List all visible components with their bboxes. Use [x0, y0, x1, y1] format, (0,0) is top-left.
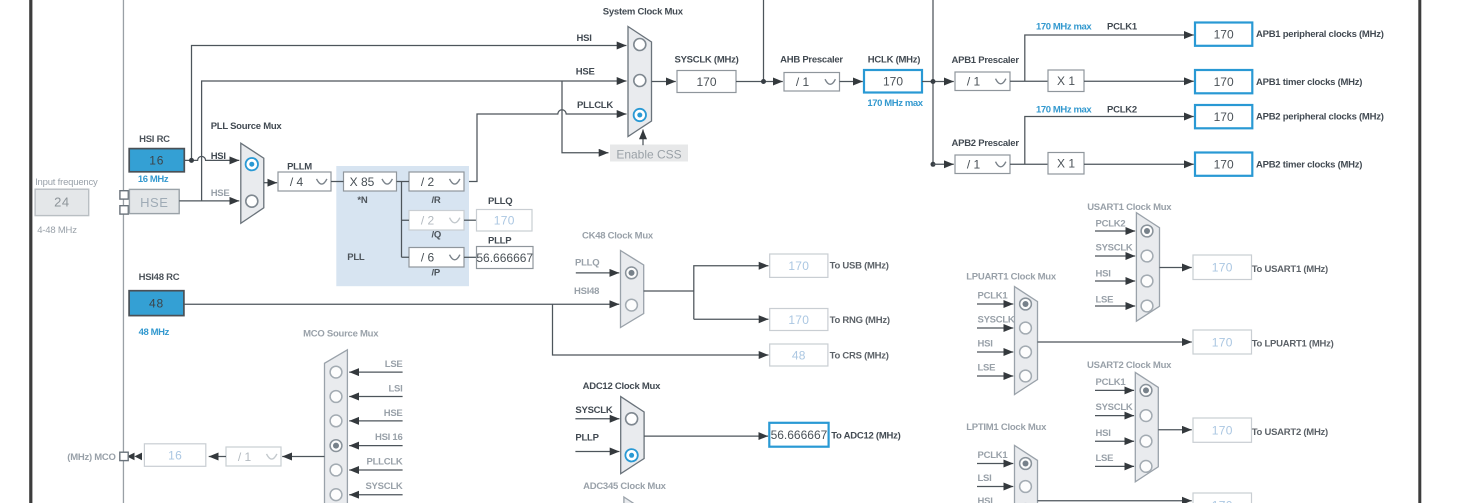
- svg-text:HSE: HSE: [140, 195, 168, 210]
- wire HSI RC to PLL Source Mux (hop over HSE riser): [184, 156, 239, 160]
- svg-text:SYSCLK: SYSCLK: [1096, 402, 1133, 413]
- wire HSI to System Clock Mux: [192, 46, 627, 161]
- svg-text:HSI48: HSI48: [574, 286, 599, 297]
- wire LPUART1 mux to To LPUART1 box: [1038, 341, 1192, 343]
- svg-text:*N: *N: [357, 195, 367, 206]
- HSE OSC_IN pin node: [120, 191, 128, 199]
- svg-text:APB2 Prescaler: APB2 Prescaler: [952, 138, 1020, 149]
- svg-text:MCO Source Mux: MCO Source Mux: [303, 328, 379, 339]
- PLL /Q divider dropdown /2 (disabled): [409, 211, 464, 231]
- svg-text:USART1 Clock Mux: USART1 Clock Mux: [1087, 202, 1172, 213]
- mux U-USART2 USART2 Clock Mux: [1135, 372, 1158, 481]
- svg-text:System Clock Mux: System Clock Mux: [603, 6, 684, 17]
- stub wire SYSCLK to USART2 mux: [1095, 415, 1134, 417]
- wire PLLM to *N: [331, 181, 344, 183]
- MCO divider dropdown /1 (disabled): [226, 447, 281, 466]
- svg-text:X 85: X 85: [350, 175, 375, 189]
- svg-text:PLLP: PLLP: [575, 433, 599, 444]
- APB1 timer clocks box 170: [1195, 70, 1252, 93]
- svg-text:56.666667: 56.666667: [476, 251, 533, 265]
- To RNG value box (disabled): [770, 309, 828, 331]
- wire SYSCLK to AHB Prescaler: [736, 81, 783, 83]
- svg-text:HSI: HSI: [1096, 428, 1111, 439]
- stub wire PCLK1 to LPUART1 mux: [977, 303, 1013, 305]
- svg-text:PLLCLK: PLLCLK: [367, 457, 403, 468]
- svg-text:170 MHz max: 170 MHz max: [1036, 22, 1092, 33]
- PLL /R divider dropdown /2: [409, 172, 464, 191]
- svg-text:HSE: HSE: [576, 66, 595, 77]
- vertical rail from top through APB junctions: [932, 0, 934, 164]
- svg-text:HSE: HSE: [384, 408, 403, 419]
- junction HSI branch: [189, 158, 194, 163]
- wire HSE riser to System Clock Mux: [202, 81, 627, 201]
- svg-text:16: 16: [168, 448, 182, 462]
- mux U-LPTIM1 LPTIM1 Clock Mux (clipped): [1015, 445, 1038, 503]
- svg-text:/ 6: / 6: [421, 251, 435, 265]
- Enable CSS button: [610, 145, 688, 162]
- svg-text:170: 170: [494, 214, 515, 228]
- To ADC12 value box 56.666667: [769, 423, 828, 447]
- svg-text:170 MHz max: 170 MHz max: [1036, 105, 1092, 116]
- junction rail APB2: [931, 162, 936, 167]
- svg-text:/ 2: / 2: [421, 214, 435, 228]
- svg-text:To LPUART1 (MHz): To LPUART1 (MHz): [1252, 339, 1334, 350]
- svg-text:LSI: LSI: [388, 383, 402, 394]
- stub wire LSE to USART2 mux: [1095, 465, 1134, 467]
- wire AHB Prescaler to HCLK: [840, 81, 863, 83]
- svg-text:170: 170: [788, 313, 809, 327]
- wire USART1 mux to To USART1 box: [1160, 267, 1192, 269]
- svg-text:PLLM: PLLM: [287, 162, 312, 173]
- APB1 Prescaler dropdown /1: [955, 72, 1010, 91]
- svg-text:170: 170: [788, 259, 809, 273]
- svg-text:/ 1: / 1: [967, 75, 981, 89]
- svg-text:X 1: X 1: [1057, 74, 1075, 88]
- AHB Prescaler dropdown /1: [784, 73, 840, 92]
- svg-text:HSI RC: HSI RC: [139, 134, 170, 145]
- wire APB2 Prescaler to X1 multiplier: [1010, 163, 1048, 165]
- svg-text:LPTIM1 Clock Mux: LPTIM1 Clock Mux: [966, 422, 1047, 433]
- wire CK48 mux output trunk: [644, 290, 694, 292]
- svg-text:PCLK1: PCLK1: [978, 450, 1009, 461]
- stub wire SYSCLK to USART1 mux: [1095, 255, 1135, 257]
- svg-text:(MHz) MCO: (MHz) MCO: [67, 452, 115, 463]
- To LPTIM1 value box (disabled, clipped): [1193, 493, 1252, 503]
- wire LPTIM1 mux to To LPTIM1 box: [1038, 500, 1192, 502]
- PLL block background: [336, 166, 469, 286]
- HSE oscillator box: [129, 189, 179, 213]
- wire X1 to APB2 timer box: [1084, 163, 1194, 165]
- wire Enable CSS up-arrow to mux: [642, 130, 644, 146]
- APB2 timer multiplier X1: [1048, 153, 1084, 175]
- svg-text:170: 170: [696, 75, 716, 89]
- svg-text:48: 48: [792, 348, 806, 362]
- To USART1 value box (disabled): [1193, 255, 1252, 280]
- APB2 timer clocks box 170: [1195, 153, 1252, 176]
- stub wire HSI to LPUART1 mux: [977, 351, 1013, 353]
- stub wire SYSCLK to LPUART1 mux: [977, 327, 1013, 329]
- svg-text:170: 170: [1214, 157, 1234, 171]
- stub wire LSI to MCO mux: [349, 396, 402, 398]
- svg-text:ADC12 Clock Mux: ADC12 Clock Mux: [583, 381, 662, 392]
- svg-text:SYSCLK: SYSCLK: [978, 315, 1015, 326]
- svg-text:APB1 Prescaler: APB1 Prescaler: [952, 55, 1020, 66]
- svg-text:To USART1 (MHz): To USART1 (MHz): [1252, 264, 1328, 275]
- svg-text:LPUART1 Clock Mux: LPUART1 Clock Mux: [966, 271, 1057, 282]
- wire CK48 to USB box: [694, 266, 769, 320]
- APB2 peripheral clocks box 170: [1195, 105, 1252, 128]
- junction HCLK rail APB1: [931, 79, 936, 84]
- stub wire LSE to USART1 mux: [1095, 305, 1135, 307]
- svg-text:170 MHz max: 170 MHz max: [867, 98, 923, 109]
- svg-text:/ 1: / 1: [238, 450, 252, 464]
- svg-text:CK48 Clock Mux: CK48 Clock Mux: [582, 230, 654, 241]
- svg-text:APB1 peripheral clocks (MHz): APB1 peripheral clocks (MHz): [1256, 29, 1384, 40]
- svg-text:PCLK2: PCLK2: [1096, 219, 1126, 230]
- svg-text:LSI: LSI: [978, 473, 992, 484]
- svg-text:HSI48 RC: HSI48 RC: [139, 272, 180, 283]
- wire APB1 Prescaler to X1 multiplier: [1010, 80, 1048, 82]
- svg-text:SYSCLK: SYSCLK: [1096, 243, 1133, 254]
- svg-text:AHB Prescaler: AHB Prescaler: [780, 54, 843, 65]
- stub wire LSE to LPUART1 mux: [977, 375, 1013, 377]
- svg-text:4-48 MHz: 4-48 MHz: [37, 225, 77, 236]
- wire ADC12 mux to To ADC12 box: [644, 435, 768, 437]
- stub wire SYSCLK to MCO mux: [349, 494, 402, 496]
- svg-text:170: 170: [1214, 27, 1234, 41]
- mux U-ADC12 ADC12 Clock Mux: [621, 397, 644, 474]
- wire PCLK2 branch to APB2 peripheral box: [1025, 117, 1194, 165]
- svg-text:APB2 timer clocks (MHz): APB2 timer clocks (MHz): [1256, 159, 1362, 170]
- svg-text:16 MHz: 16 MHz: [138, 174, 169, 185]
- wire HSE to PLL Source Mux: [179, 200, 239, 202]
- svg-text:To USART2 (MHz): To USART2 (MHz): [1252, 427, 1328, 438]
- PLLM divider dropdown /4: [278, 172, 331, 191]
- wire HCLK to APB1 Prescaler: [922, 81, 954, 83]
- svg-text:LSE: LSE: [385, 359, 403, 370]
- To USART2 value box (disabled): [1193, 418, 1252, 442]
- wire System Clock Mux to SYSCLK box: [652, 81, 676, 83]
- wire MCO mux to divider: [282, 456, 324, 458]
- mux U-USART1 USART1 Clock Mux: [1136, 213, 1159, 322]
- svg-text:48 MHz: 48 MHz: [139, 327, 170, 338]
- junction SYSCLK rail: [761, 79, 766, 84]
- wire rail junction to APB2 Prescaler: [933, 163, 954, 165]
- stub wire PLLQ to CK48 mux: [576, 272, 620, 274]
- svg-text:/ 1: / 1: [796, 75, 810, 89]
- chip boundary left dark line: [29, 0, 32, 503]
- svg-text:To USB (MHz): To USB (MHz): [830, 261, 889, 272]
- svg-text:PLL: PLL: [347, 252, 365, 263]
- APB1 peripheral clocks box 170: [1195, 23, 1252, 46]
- svg-text:/ 4: / 4: [290, 175, 304, 189]
- svg-text:PLLQ: PLLQ: [575, 258, 599, 269]
- MCO pin node: [120, 452, 128, 460]
- mux U-PLLSRC PLL Source Mux: [241, 143, 264, 223]
- PLL /P divider dropdown /6: [409, 248, 464, 268]
- wire PLL Source Mux to PLLM: [264, 182, 277, 184]
- wire MCO divider to MCO value box: [209, 456, 226, 458]
- svg-text:PCLK1: PCLK1: [1107, 22, 1138, 33]
- svg-text:/R: /R: [432, 195, 441, 206]
- HCLK value box 170: [864, 70, 922, 93]
- To USB value box (disabled): [770, 254, 828, 277]
- svg-text:HSE: HSE: [211, 188, 230, 199]
- svg-text:LSE: LSE: [978, 363, 996, 374]
- stub wire PLLP to ADC12 mux: [575, 451, 619, 453]
- svg-text:SYSCLK: SYSCLK: [365, 481, 402, 492]
- svg-text:SYSCLK: SYSCLK: [575, 405, 612, 416]
- svg-text:170: 170: [1214, 110, 1234, 124]
- wire CK48 to RNG box: [694, 318, 769, 320]
- svg-text:LSE: LSE: [1096, 295, 1114, 306]
- svg-text:HCLK (MHz): HCLK (MHz): [868, 54, 920, 65]
- inner gray vertical rail: [123, 0, 124, 503]
- double arrowheads into MCO pin: [127, 453, 142, 461]
- wire HSE branch to Enable CSS: [562, 81, 609, 153]
- stub wire HSE to MCO mux: [349, 420, 402, 422]
- wire *N to /R with trunk to /Q and /P: [397, 182, 410, 258]
- wire HSI48 branch to CRS box: [553, 304, 769, 355]
- wire X1 to APB1 timer box: [1084, 80, 1194, 82]
- svg-text:HSI: HSI: [978, 496, 993, 503]
- wire PCLK1 branch to APB1 peripheral box: [1025, 35, 1194, 81]
- svg-text:PCLK1: PCLK1: [978, 291, 1009, 302]
- svg-text:LSE: LSE: [1096, 453, 1114, 464]
- stub wire HSI to USART1 mux: [1095, 280, 1135, 282]
- mux U-MCO MCO Source Mux (mirrored, clipped at bottom): [325, 350, 348, 503]
- PLLP output box 56.666667: [476, 247, 533, 269]
- svg-text:48: 48: [149, 296, 164, 310]
- To CRS value box (disabled): [770, 344, 828, 366]
- svg-text:X 1: X 1: [1057, 157, 1075, 171]
- stub wire PCLK1 to USART2 mux: [1095, 389, 1134, 391]
- svg-text:PCLK1: PCLK1: [1096, 377, 1127, 388]
- svg-text:170: 170: [1212, 498, 1233, 503]
- svg-text:PCLK2: PCLK2: [1107, 105, 1137, 116]
- svg-text:/Q: /Q: [432, 230, 442, 241]
- svg-text:HSI: HSI: [577, 33, 592, 44]
- svg-text:/P: /P: [432, 268, 441, 279]
- svg-text:HSI: HSI: [211, 151, 226, 162]
- APB1 timer multiplier X1: [1048, 70, 1084, 92]
- svg-text:16: 16: [149, 154, 164, 168]
- wire /Q to PLLQ box: [464, 219, 477, 221]
- svg-text:PLLQ: PLLQ: [488, 196, 512, 207]
- svg-text:24: 24: [54, 195, 69, 210]
- stub wire PLLCLK to MCO mux: [349, 469, 402, 471]
- stub wire LSE to MCO mux: [349, 371, 402, 373]
- mux U-LPUART1 LPUART1 Clock Mux: [1015, 287, 1038, 395]
- wire PLLCLK from /R to System Clock Mux (hop over CSS feed): [465, 110, 627, 182]
- svg-text:/ 2: / 2: [421, 175, 435, 189]
- svg-text:170: 170: [1214, 75, 1234, 89]
- wire /P to PLLP box: [464, 256, 477, 258]
- svg-text:Input frequency: Input frequency: [35, 177, 98, 188]
- stub wire LSI to LPTIM1 mux: [977, 486, 1013, 488]
- svg-text:170: 170: [883, 75, 903, 89]
- svg-text:SYSCLK (MHz): SYSCLK (MHz): [674, 54, 738, 65]
- mux U-SYSCLK System Clock Mux: [628, 27, 652, 137]
- mux U-ADC345 ADC345 Clock Mux (clipped at bottom edge): [624, 497, 647, 503]
- PLL *N multiplier dropdown X85: [344, 172, 397, 191]
- HSI48 RC 48 MHz source box: [129, 291, 184, 316]
- svg-text:PLLP: PLLP: [488, 236, 512, 247]
- svg-text:USART2 Clock Mux: USART2 Clock Mux: [1087, 360, 1172, 371]
- wire USART2 mux to To USART2 box: [1158, 429, 1192, 431]
- MCO value box 16 (disabled): [144, 444, 205, 467]
- stub wire SYSCLK to ADC12 mux: [575, 418, 619, 420]
- svg-text:170: 170: [1212, 335, 1233, 349]
- wire HSI48 to CK48 Clock Mux: [184, 303, 619, 305]
- vertical rail from top to SYSCLK junction: [763, 0, 765, 82]
- input frequency value box 24: [35, 189, 89, 215]
- svg-text:HSI: HSI: [1096, 269, 1111, 280]
- svg-text:HSI 16: HSI 16: [375, 432, 403, 443]
- SYSCLK value box 170: [677, 71, 736, 93]
- svg-text:To RNG (MHz): To RNG (MHz): [830, 315, 890, 326]
- HSE OSC_OUT pin node: [120, 206, 128, 214]
- svg-text:170: 170: [1212, 423, 1233, 437]
- stub wire PCLK2 to USART1 mux: [1095, 230, 1135, 232]
- svg-text:HSI: HSI: [978, 339, 993, 350]
- HSI RC 16 MHz source box: [129, 149, 184, 172]
- svg-text:PLLCLK: PLLCLK: [577, 100, 613, 111]
- svg-text:To CRS (MHz): To CRS (MHz): [830, 350, 889, 361]
- APB2 Prescaler dropdown /1: [955, 155, 1010, 174]
- svg-text:ADC345 Clock Mux: ADC345 Clock Mux: [583, 481, 667, 492]
- svg-text:PLL Source Mux: PLL Source Mux: [211, 121, 283, 132]
- chip boundary right dark line: [1418, 0, 1421, 503]
- svg-text:Enable CSS: Enable CSS: [616, 148, 681, 162]
- To LPUART1 value box (disabled): [1193, 330, 1252, 354]
- stub wire HSI 16 to MCO mux: [349, 445, 402, 447]
- svg-text:To ADC12 (MHz): To ADC12 (MHz): [831, 430, 900, 441]
- PLLQ output box (disabled): [477, 210, 533, 232]
- mux U-CK48 CK48 Clock Mux: [621, 251, 644, 328]
- svg-text:56.666667: 56.666667: [771, 428, 828, 442]
- stub wire HSI to USART2 mux: [1095, 440, 1134, 442]
- svg-text:APB1 timer clocks (MHz): APB1 timer clocks (MHz): [1256, 77, 1362, 88]
- svg-text:APB2 peripheral clocks (MHz): APB2 peripheral clocks (MHz): [1256, 112, 1384, 123]
- svg-text:170: 170: [1212, 261, 1233, 275]
- svg-text:/ 1: / 1: [967, 158, 981, 172]
- stub wire PCLK1 to LPTIM1 mux: [977, 463, 1013, 465]
